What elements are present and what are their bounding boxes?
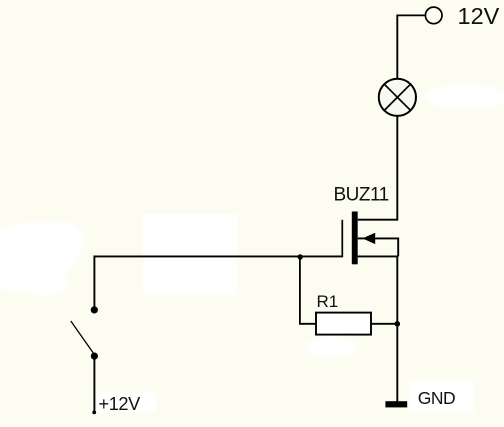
transistor BUZ11 N-channel MOSFET [342,212,398,265]
svg-text:R1: R1 [317,292,339,311]
wire left drop to switch [93,256,95,311]
wire R1 left lead [300,323,316,325]
wire source down to ground [396,256,398,401]
node source/R1 junction [395,321,401,327]
svg-text:12V: 12V [458,3,500,29]
wire terminal to corner [397,14,425,16]
wire switch to +12V stub [93,356,95,412]
wire down to lamp [396,15,398,79]
svg-text:GND: GND [418,388,455,408]
switch S1 [71,306,98,359]
wire junction down to R1 [299,256,301,324]
svg-text:BUZ11: BUZ11 [334,184,389,205]
svg-text:+12V: +12V [99,394,142,414]
terminal 12V supply [425,7,442,24]
node gate/R1 junction [298,254,303,259]
resistor R1 [316,313,371,335]
wire gate run [94,255,342,257]
ground [385,401,407,407]
node +12V end [92,411,96,415]
lamp [379,79,416,116]
wire R1 right lead [371,323,397,325]
wire lamp to drain [396,116,398,221]
